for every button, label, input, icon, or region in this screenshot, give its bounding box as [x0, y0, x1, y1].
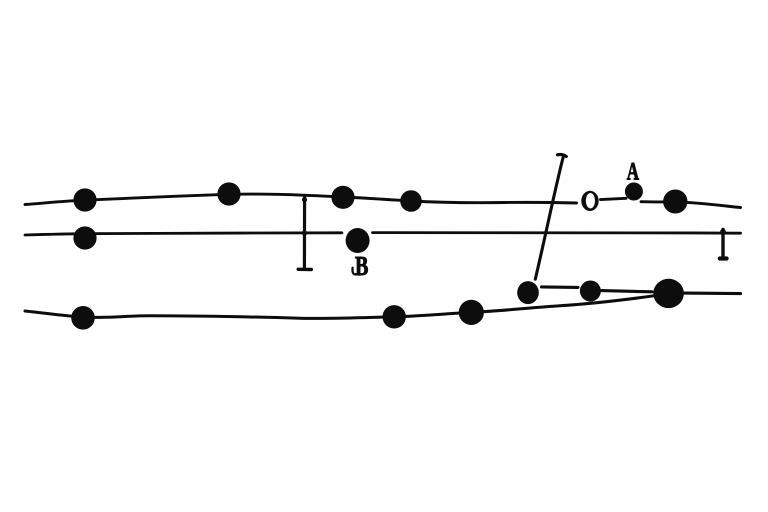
diagonal line: [535, 156, 563, 279]
node dot A: [625, 183, 643, 201]
label B entry tail: [352, 268, 360, 275]
tick mark left foot: [298, 268, 311, 272]
node dot top-1: [73, 188, 96, 211]
node dot middle-1: [73, 226, 96, 249]
tick mark left junction blob top: [302, 197, 307, 202]
node dot branch-2: [580, 281, 601, 302]
svg-text:A: A: [627, 157, 640, 185]
wire branch dash: [542, 285, 579, 289]
node dot bottom-2: [383, 305, 406, 328]
tick mark right junction blob: [720, 229, 726, 235]
node dot top-2: [217, 182, 240, 205]
node dot branch-1: [517, 281, 539, 304]
tick mark left vertical: [303, 196, 306, 269]
wire top line O to A segment: [601, 198, 627, 199]
wire bottom line: [25, 295, 662, 319]
tick mark right foot: [720, 256, 727, 260]
svg-text:B: B: [355, 252, 368, 282]
wire top line A to right end segment: [641, 202, 741, 208]
node dot bottom-1: [71, 306, 95, 330]
wire middle line right segment: [373, 231, 741, 235]
label O outer: [581, 191, 598, 211]
node dot bottom-3: [459, 300, 484, 325]
wire middle line left segment: [25, 233, 342, 235]
tick mark right vertical: [721, 230, 724, 259]
wire top line left segment: [25, 194, 577, 204]
diagonal line top serif: [558, 155, 567, 157]
node dot B: [346, 228, 370, 253]
wire branch right of big dot: [685, 292, 741, 296]
node dot top-4: [400, 190, 422, 212]
label O counter: [586, 193, 595, 208]
node dot branch-3 large: [653, 279, 684, 308]
tick mark left junction blob middle: [302, 230, 307, 235]
wire branch dot2 to big dot: [602, 291, 653, 292]
node dot top-3: [331, 186, 354, 209]
node dot top-right large: [663, 190, 687, 214]
